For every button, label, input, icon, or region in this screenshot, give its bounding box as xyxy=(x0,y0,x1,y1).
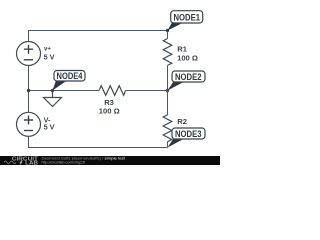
bottom rail wire xyxy=(29,136,168,147)
resistor R1 xyxy=(163,39,172,66)
ground junction dot xyxy=(51,89,54,92)
node NODE3 callout box xyxy=(172,128,205,139)
resistor R3 xyxy=(99,86,126,96)
middle rail wire (node C to node B) xyxy=(29,90,168,92)
node A junction dot xyxy=(166,29,169,32)
node NODE1 callout box xyxy=(171,11,203,23)
ground xyxy=(44,91,62,107)
V- minus symbol xyxy=(24,130,33,132)
svg-text:R2: R2 xyxy=(177,117,187,126)
footer bar xyxy=(0,156,220,165)
svg-text:LAB: LAB xyxy=(25,160,38,165)
svg-text:NODE1: NODE1 xyxy=(174,12,201,22)
node NODE2 callout box xyxy=(172,71,205,82)
node NODE2 callout tail xyxy=(168,82,185,91)
voltage source V- (circle) xyxy=(17,112,41,136)
svg-text:5 V: 5 V xyxy=(44,53,55,62)
V+ minus symbol xyxy=(24,59,33,61)
svg-text:NODE3: NODE3 xyxy=(175,129,202,139)
voltage source V+ (circle) xyxy=(17,42,41,66)
svg-text:100 Ω: 100 Ω xyxy=(177,54,198,63)
wire R2 bottom to bottom rail corner xyxy=(167,142,169,148)
wire R1 bottom to node B xyxy=(167,65,169,90)
svg-text:5 V: 5 V xyxy=(44,123,55,132)
node C junction dot (left rail / middle rail) xyxy=(27,89,30,92)
wire node B to R2 top xyxy=(167,91,169,115)
footer CircuitLab logo xyxy=(4,156,38,166)
svg-text:http://circuitlab.com/c/bg23f: http://circuitlab.com/c/bg23f xyxy=(42,161,86,165)
node NODE3 callout tail xyxy=(168,139,185,148)
svg-text:100 Ω: 100 Ω xyxy=(99,106,120,115)
svg-text:R1: R1 xyxy=(177,45,187,54)
V+ plus symbol xyxy=(24,45,33,54)
svg-text:NODE4: NODE4 xyxy=(57,71,83,81)
node NODE1 callout tail xyxy=(168,23,184,31)
wire right rail top (node A to R1 top) xyxy=(167,31,169,39)
svg-text:NODE2: NODE2 xyxy=(175,72,202,82)
wire from V+ top to node A (top rail) xyxy=(29,31,168,42)
wire V- top to V+ bottom (left rail) xyxy=(28,66,30,113)
node NODE4 callout tail xyxy=(53,81,68,91)
V- plus symbol xyxy=(24,116,33,125)
resistor R2 xyxy=(163,115,172,142)
node B junction dot xyxy=(166,89,169,92)
node NODE4 callout box xyxy=(54,71,85,82)
